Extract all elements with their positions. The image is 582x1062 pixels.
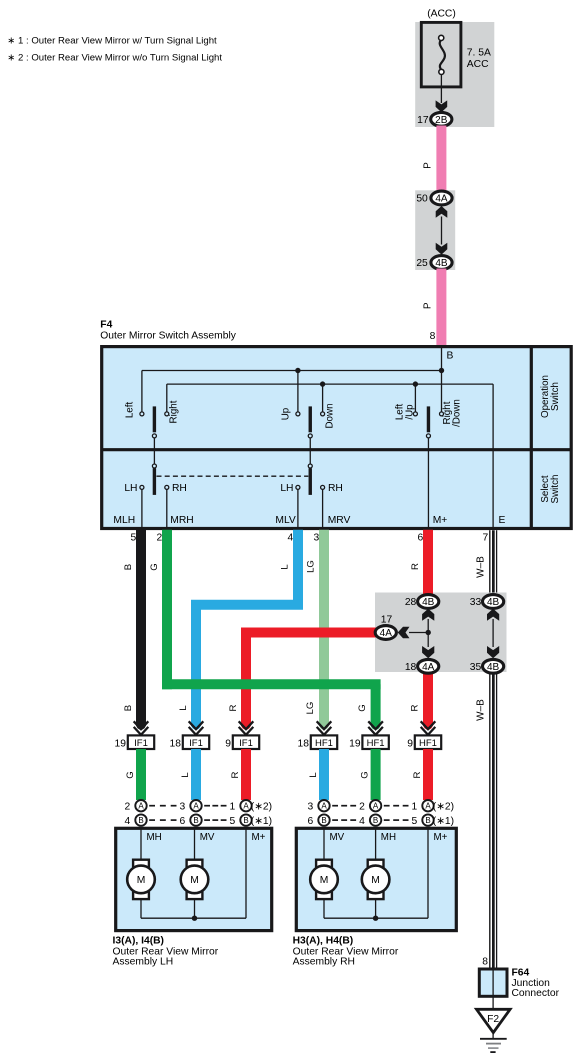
wire stub at x=141	[136, 749, 146, 800]
svg-text:B: B	[138, 816, 143, 825]
svg-text:4: 4	[359, 816, 365, 827]
svg-text:Assembly LH: Assembly LH	[113, 957, 174, 968]
svg-text:19: 19	[349, 739, 361, 750]
svg-text:Down: Down	[324, 403, 335, 428]
arrow down to 4B	[436, 243, 448, 255]
svg-text:G: G	[149, 563, 160, 570]
wire B (pin 5 to IF1-19)	[136, 530, 146, 726]
svg-text:7. 5A: 7. 5A	[467, 48, 491, 59]
svg-text:ACC: ACC	[467, 59, 489, 70]
fuse 7.5A ACC box	[421, 22, 461, 87]
select contact RH1 and wire	[165, 485, 169, 489]
internal wires	[323, 828, 325, 860]
svg-text:2B: 2B	[435, 115, 448, 126]
svg-text:Switch: Switch	[550, 382, 561, 411]
svg-text:G: G	[360, 771, 371, 778]
wire G (pin 2 to HF1-19)	[162, 530, 172, 690]
connector 4A	[431, 191, 452, 205]
svg-text:4B: 4B	[487, 597, 500, 608]
wire R (pin 6 to 28-4B)	[423, 530, 433, 602]
svg-text:A: A	[193, 802, 199, 811]
svg-text:M: M	[190, 875, 199, 886]
svg-text:L: L	[308, 772, 319, 778]
svg-text:RH: RH	[172, 483, 187, 494]
svg-text:(∗1): (∗1)	[433, 816, 454, 827]
wire to terminal E	[492, 384, 494, 527]
svg-text:M: M	[320, 875, 329, 886]
connector 9 HF1 arrow	[421, 721, 436, 729]
svg-text:4B: 4B	[422, 597, 435, 608]
arrows between 28-4B and 18-4A	[422, 609, 434, 621]
svg-text:∗ 1 : Outer Rear View Mirror w: ∗ 1 : Outer Rear View Mirror w/ Turn Sig…	[7, 36, 217, 47]
svg-text:18: 18	[170, 739, 182, 750]
fuse block background	[415, 22, 494, 127]
internal wires	[140, 828, 142, 860]
connector 4B	[431, 256, 452, 270]
svg-text:1: 1	[411, 801, 417, 812]
contact Up	[296, 412, 300, 416]
wire stub at x=375.6	[371, 749, 381, 800]
select contact LH1 and wire	[140, 485, 144, 489]
svg-text:5: 5	[229, 816, 235, 827]
svg-text:MRH: MRH	[170, 515, 193, 526]
svg-text:8: 8	[482, 957, 488, 968]
svg-text:Connector: Connector	[512, 988, 560, 999]
svg-text:B: B	[425, 816, 430, 825]
svg-text:Up: Up	[280, 407, 291, 420]
svg-text:R: R	[412, 771, 423, 778]
svg-text:I3(A), I4(B): I3(A), I4(B)	[113, 936, 165, 947]
connector 2B	[431, 112, 452, 126]
wire R above 28-4B	[423, 593, 433, 602]
svg-text:W–B: W–B	[476, 699, 487, 721]
svg-text:3: 3	[307, 801, 313, 812]
svg-text:2: 2	[156, 533, 162, 544]
svg-text:4: 4	[287, 533, 293, 544]
svg-text:18: 18	[298, 739, 310, 750]
svg-text:17: 17	[417, 115, 429, 126]
svg-text:18: 18	[405, 662, 417, 673]
F4 outer mirror switch assembly box	[102, 347, 572, 529]
svg-text:L: L	[180, 772, 191, 778]
contact Left	[140, 412, 144, 416]
svg-text:IF1: IF1	[134, 738, 148, 749]
svg-text:35: 35	[470, 662, 482, 673]
connector 4A	[418, 659, 439, 673]
svg-text:W–B: W–B	[476, 556, 487, 578]
wire W-B (pin 7 to junction)	[489, 530, 497, 601]
select switch pivots	[152, 464, 156, 468]
svg-text:L: L	[178, 705, 189, 711]
svg-text:∗ 2 : Outer Rear View Mirror w: ∗ 2 : Outer Rear View Mirror w/o Turn Si…	[7, 53, 222, 64]
connector dashed links	[149, 805, 155, 807]
contact Down	[321, 412, 325, 416]
wire R stub at 17-4A	[375, 628, 388, 638]
svg-text:A: A	[243, 802, 249, 811]
wire P (pink) upper segment	[436, 126, 446, 193]
svg-text:7: 7	[482, 533, 488, 544]
svg-text:M+: M+	[433, 515, 448, 526]
svg-text:28: 28	[405, 597, 417, 608]
wire stub at x=428	[423, 749, 433, 800]
contact Right	[165, 412, 169, 416]
svg-text:4B: 4B	[435, 258, 448, 269]
svg-text:LH: LH	[280, 483, 293, 494]
svg-text:L: L	[279, 564, 290, 570]
svg-text:M: M	[371, 875, 380, 886]
arrows between 33-4B and 35-4B	[487, 609, 499, 621]
select contact RH2 and wire	[321, 485, 325, 489]
svg-text:HF1: HF1	[367, 738, 385, 749]
wire L (pin 4 to IF1-18)	[293, 530, 303, 605]
wire W-B (junction to F64)	[489, 666, 497, 969]
F64 junction connector	[479, 969, 507, 996]
section divider horizontal	[102, 448, 572, 451]
svg-text:MV: MV	[200, 832, 215, 843]
svg-text:(∗1): (∗1)	[251, 816, 272, 827]
svg-text:R: R	[410, 563, 421, 570]
svg-text:R: R	[230, 771, 241, 778]
svg-text:6: 6	[179, 816, 185, 827]
junction block background	[375, 593, 507, 673]
label column divider	[530, 347, 533, 529]
connector 4B	[418, 595, 439, 609]
svg-text:/Down: /Down	[452, 399, 463, 427]
mirror assembly LH box	[116, 828, 272, 930]
contact Right/Down	[440, 412, 444, 416]
svg-text:E: E	[499, 515, 506, 526]
wire stub at x=196	[191, 749, 201, 800]
wire R from 18-4A to HF1-9	[423, 666, 433, 726]
svg-text:B: B	[373, 816, 378, 825]
svg-text:RH: RH	[328, 483, 343, 494]
wire stub at x=246	[241, 749, 251, 800]
svg-text:B: B	[321, 816, 326, 825]
svg-text:A: A	[321, 802, 327, 811]
svg-text:A: A	[138, 802, 144, 811]
svg-text:A: A	[425, 802, 431, 811]
motor M	[368, 860, 384, 869]
svg-text:4: 4	[124, 816, 130, 827]
wire P (pink) lower segment	[436, 269, 446, 348]
svg-text:9: 9	[407, 739, 413, 750]
ground F2	[477, 1009, 511, 1032]
svg-text:HF1: HF1	[419, 738, 437, 749]
svg-text:(ACC): (ACC)	[427, 9, 456, 20]
bus line 2 (Right/Down/LeftUp to E)	[167, 383, 493, 385]
svg-text:5: 5	[411, 816, 417, 827]
svg-text:6: 6	[307, 816, 313, 827]
M+ wire	[427, 438, 429, 527]
svg-text:IF1: IF1	[189, 738, 203, 749]
connector 18 IF1 arrow	[189, 721, 204, 729]
svg-text:R: R	[228, 704, 239, 711]
motor M	[187, 860, 203, 869]
connector 9 IF1 arrow	[239, 721, 254, 729]
connector 4A	[398, 627, 410, 639]
link line	[441, 217, 443, 245]
bus line 1 (Left/Up/RightDown)	[142, 370, 442, 372]
svg-text:25: 25	[416, 258, 428, 269]
svg-text:M+: M+	[434, 832, 448, 843]
svg-text:MRV: MRV	[328, 515, 351, 526]
svg-text:IF1: IF1	[239, 738, 253, 749]
svg-text:B: B	[193, 816, 198, 825]
svg-text:H3(A), H4(B): H3(A), H4(B)	[293, 936, 354, 947]
connector dashed links	[332, 805, 338, 807]
svg-text:R: R	[410, 704, 421, 711]
svg-text:A: A	[373, 802, 379, 811]
svg-text:Left: Left	[124, 402, 135, 419]
svg-text:19: 19	[115, 739, 127, 750]
svg-text:5: 5	[130, 533, 136, 544]
svg-text:33: 33	[470, 597, 482, 608]
mechanical link dashed line	[157, 475, 309, 477]
connector 4B	[483, 595, 504, 609]
svg-text:2: 2	[359, 801, 365, 812]
operation switch wiper bar 3	[427, 406, 430, 432]
svg-text:Right: Right	[169, 400, 180, 423]
svg-text:2: 2	[124, 801, 130, 812]
svg-text:MLV: MLV	[275, 515, 296, 526]
wire fuse to connector 2B	[440, 75, 442, 104]
arrow up to 4A	[436, 206, 448, 218]
svg-text:M: M	[137, 875, 146, 886]
mirror assembly RH box	[296, 828, 456, 930]
svg-text:Switch: Switch	[550, 475, 561, 504]
svg-text:4A: 4A	[435, 194, 448, 205]
svg-text:MLH: MLH	[113, 515, 135, 526]
svg-text:G: G	[357, 704, 368, 711]
svg-text:F4: F4	[100, 319, 112, 330]
wire stub at x=324	[319, 749, 329, 800]
svg-text:9: 9	[225, 739, 231, 750]
wire to ground	[492, 996, 494, 1008]
svg-text:4A: 4A	[380, 628, 393, 639]
svg-text:MH: MH	[147, 832, 162, 843]
in-line connector block 4A/4B	[415, 190, 455, 270]
ground symbol	[492, 1033, 494, 1039]
svg-text:LH: LH	[124, 483, 137, 494]
select contact LH2 and wire	[296, 485, 300, 489]
svg-text:MV: MV	[330, 832, 345, 843]
svg-text:3: 3	[313, 533, 319, 544]
svg-text:3: 3	[179, 801, 185, 812]
svg-text:F2: F2	[487, 1014, 499, 1025]
operation switch wiper bar 2	[309, 406, 312, 432]
connector 4B	[483, 659, 504, 673]
svg-text:P: P	[423, 162, 434, 169]
svg-text:B: B	[447, 351, 454, 362]
svg-text:(∗2): (∗2)	[251, 801, 272, 812]
wire LG (pin 3 to HF1-18)	[319, 530, 329, 726]
svg-text:50: 50	[416, 194, 428, 205]
motor M	[316, 860, 332, 869]
svg-text:P: P	[423, 302, 434, 309]
wire R (4A-17 to IF1-9)	[251, 628, 388, 638]
svg-text:LG: LG	[305, 560, 316, 573]
svg-text:MH: MH	[381, 832, 396, 843]
wiper link wires	[153, 438, 155, 464]
svg-text:4A: 4A	[422, 662, 435, 673]
svg-text:G: G	[125, 771, 136, 778]
svg-text:17: 17	[381, 614, 393, 625]
svg-text:B: B	[123, 705, 134, 711]
svg-text:B: B	[123, 564, 134, 570]
connector 19 HF1 arrow	[368, 721, 383, 729]
svg-text:HF1: HF1	[315, 738, 333, 749]
svg-text:(∗2): (∗2)	[433, 801, 454, 812]
svg-text:Outer Mirror Switch Assembly: Outer Mirror Switch Assembly	[100, 330, 236, 341]
svg-text:/Up: /Up	[404, 404, 415, 420]
node B vertical wire	[441, 348, 443, 413]
svg-text:6: 6	[417, 533, 423, 544]
svg-text:Assembly RH: Assembly RH	[293, 957, 355, 968]
svg-text:8: 8	[430, 331, 436, 342]
motor M	[133, 860, 149, 869]
select switch wiper bars	[153, 468, 156, 495]
connector 18 HF1 arrow	[317, 721, 332, 729]
svg-text:LG: LG	[305, 702, 316, 715]
operation switch wiper bar 1	[153, 406, 156, 432]
fuse symbol	[440, 40, 445, 69]
svg-text:B: B	[243, 816, 248, 825]
svg-text:4B: 4B	[487, 662, 500, 673]
svg-text:M+: M+	[252, 832, 266, 843]
contact Left/Up	[413, 412, 417, 416]
connector 19 IF1 arrow	[134, 721, 149, 729]
svg-text:1: 1	[229, 801, 235, 812]
